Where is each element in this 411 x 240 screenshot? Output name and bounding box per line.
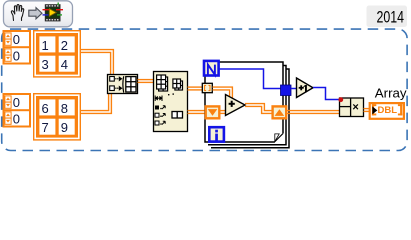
wire Add output to right SR bbox=[245, 104, 272, 114]
wire Build Array to Index Array (double) bbox=[138, 80, 154, 83]
wire +1 to Reshape (blue) bbox=[313, 88, 340, 100]
svg-text:×: × bbox=[352, 101, 358, 113]
+1 increment node bbox=[297, 78, 314, 98]
hand tool icon bbox=[11, 4, 23, 20]
svg-text:3: 3 bbox=[42, 57, 49, 72]
svg-text:0: 0 bbox=[13, 49, 20, 64]
Add node (+) bbox=[226, 95, 246, 116]
index control IDX1 (top cluster) bbox=[4, 31, 31, 64]
svg-text:4: 4 bbox=[61, 57, 68, 72]
svg-text:8: 8 bbox=[61, 101, 68, 116]
Build Array node U1 bbox=[108, 75, 138, 94]
svg-text:0: 0 bbox=[13, 32, 20, 47]
i terminal bbox=[209, 127, 224, 141]
arrow cursor icon bbox=[29, 8, 42, 19]
Index Array node U2 bbox=[154, 72, 188, 132]
toolbar tab bbox=[4, 1, 73, 27]
spinner IDX1 row2 bbox=[5, 49, 11, 61]
svg-text:DBL: DBL bbox=[378, 105, 398, 116]
svg-text:0: 0 bbox=[13, 112, 20, 127]
auto-index tunnel (left edge) bbox=[202, 83, 212, 92]
wire Reshape to Array indicator (double) bbox=[364, 109, 371, 112]
svg-text:0: 0 bbox=[13, 95, 20, 110]
index control IDX2 (bottom cluster) bbox=[4, 94, 31, 127]
svg-text:2: 2 bbox=[61, 38, 68, 53]
small dots under grids bbox=[168, 94, 169, 95]
spinner IDX1 row1 bbox=[5, 33, 11, 45]
blue output tunnel (right edge) bbox=[281, 85, 292, 96]
loop dog-ear corner bbox=[275, 133, 284, 142]
wire left SR to Add bottom input bbox=[221, 111, 227, 114]
For loop frame page 3 bbox=[211, 69, 289, 148]
label 2014 bbox=[367, 6, 408, 28]
wire Index Array to left shift register (double) bbox=[188, 111, 206, 114]
small 2x2 grid glyph bbox=[175, 81, 183, 90]
spinner IDX2 row1 bbox=[5, 96, 11, 108]
VI film icon bbox=[43, 3, 64, 22]
svg-text:7: 7 bbox=[42, 120, 49, 135]
svg-text:9: 9 bbox=[61, 120, 68, 135]
snippet dashed border bbox=[2, 29, 407, 150]
row B: hollow index glyph + 2-cell output bbox=[155, 112, 183, 119]
row A: filled index glyph bbox=[155, 106, 165, 110]
row C: hollow index glyph bbox=[155, 121, 165, 125]
Array indicator terminal [DBL] bbox=[370, 103, 404, 119]
width arrow glyph bbox=[155, 96, 162, 102]
wire tunnel to +1 (blue) bbox=[291, 88, 297, 90]
N terminal bbox=[204, 61, 219, 76]
Reshape Array node U3 bbox=[340, 98, 364, 117]
left shift register (down arrow) bbox=[206, 106, 220, 118]
wire tunnel to Add top input bbox=[213, 87, 233, 98]
big 3D grid glyph bbox=[159, 77, 168, 91]
svg-text:6: 6 bbox=[42, 101, 49, 116]
right shift register (up arrow) bbox=[273, 106, 287, 118]
2D array constant A2 (6 8 / 7 9) bbox=[34, 94, 81, 140]
For loop frame page 2 bbox=[208, 66, 286, 145]
spinner IDX2 row2 bbox=[5, 112, 11, 124]
wire right SR to Reshape (double) bbox=[287, 111, 340, 114]
coercion dot (red) bbox=[338, 97, 343, 102]
svg-text:Array: Array bbox=[375, 86, 407, 101]
For loop main frame bbox=[205, 62, 283, 142]
wire A2 to Build Array (2D array, double) bbox=[80, 93, 111, 113]
svg-text:1: 1 bbox=[42, 38, 49, 53]
wire N to right tunnel (blue) bbox=[220, 69, 281, 89]
svg-text:2014: 2014 bbox=[377, 7, 405, 26]
2D array constant A1 (1 2 / 3 4) bbox=[34, 31, 81, 77]
wire A1 to Build Array (2D array, double) bbox=[80, 50, 113, 76]
wire Index Array to loop tunnel (double) bbox=[188, 87, 203, 90]
